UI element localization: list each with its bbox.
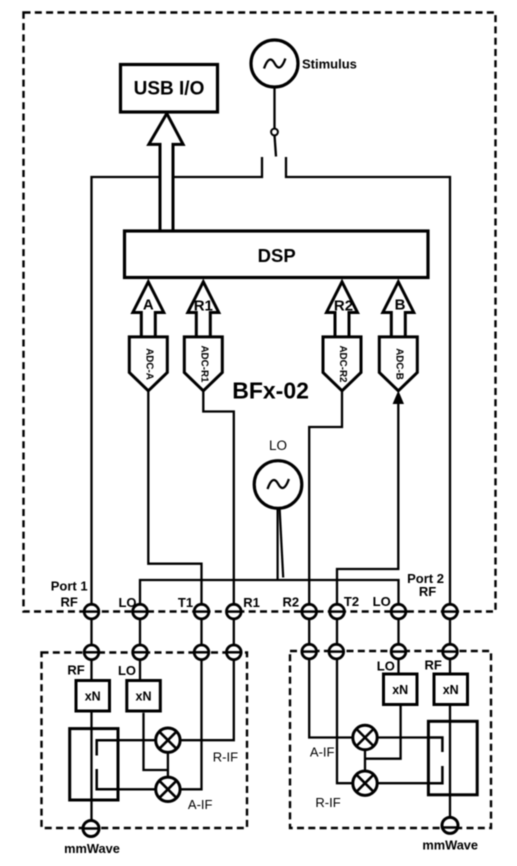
extender RF in connector port2	[443, 644, 458, 659]
mixer A-IF port1	[156, 777, 180, 801]
svg-text:LO: LO	[269, 438, 287, 453]
extender R-IF connector port1	[227, 645, 242, 660]
svg-text:T1: T1	[178, 595, 193, 610]
svg-text:ADC-A: ADC-A	[143, 348, 154, 380]
wire: ADC-A to T1 port to A-IF mixer	[148, 391, 201, 790]
xN multiplier LO port2	[384, 674, 418, 705]
wire: T2 port to ADC-B	[337, 400, 398, 783]
ADC channel A : arrow into DSP	[133, 282, 164, 337]
wire: switch right throw to port2 RF	[286, 157, 450, 818]
R2 connector	[302, 604, 317, 619]
wire: ADC-R2 to R2 port to A-IF mixer right box	[309, 391, 353, 738]
mixer R-IF port1	[156, 728, 180, 752]
right mmWave extender dashed enclosure	[290, 651, 491, 828]
svg-text:R1: R1	[243, 595, 260, 610]
svg-text:BFx-02: BFx-02	[232, 378, 309, 404]
svg-text:RF: RF	[67, 663, 84, 678]
xN multiplier RF port1	[76, 681, 110, 712]
T1 connector	[194, 604, 209, 619]
DSP box	[125, 231, 429, 278]
wire: A-IF mixer to right coupler	[376, 736, 428, 738]
svg-text:A: A	[143, 297, 154, 314]
main instrument dashed enclosure	[24, 13, 496, 612]
USB I/O box	[121, 65, 218, 113]
wire: right LO multiplier to mixers	[365, 705, 401, 759]
svg-text:xN: xN	[443, 683, 459, 697]
port1 RF connector	[84, 604, 99, 619]
extender A-IF connector port1	[194, 645, 209, 660]
wire: stimulus drop to switch	[273, 87, 275, 129]
mixer A-IF port2	[353, 725, 377, 749]
stimulus source	[251, 40, 298, 87]
ADC-R2 pentagon	[323, 337, 361, 391]
svg-text:LO: LO	[373, 594, 391, 609]
svg-text:mmWave: mmWave	[422, 838, 478, 853]
svg-text:xN: xN	[136, 690, 152, 704]
svg-text:USB I/O: USB I/O	[134, 79, 205, 100]
ADC-R1 pentagon	[184, 337, 222, 391]
switch blade	[275, 135, 277, 156]
ADC-A pentagon	[129, 337, 167, 391]
svg-text:RF: RF	[419, 584, 436, 599]
arrowhead into ADC-B	[393, 391, 404, 405]
extender R-IF connector port2	[329, 644, 344, 659]
switch pivot	[271, 129, 278, 136]
svg-text:Port 1: Port 1	[51, 579, 88, 594]
wire: left coupler to R-IF mixer	[118, 739, 157, 741]
svg-text:mmWave: mmWave	[64, 841, 120, 856]
wire: left inter-mixer link	[167, 752, 169, 777]
svg-text:R-IF: R-IF	[315, 795, 340, 810]
xN multiplier RF port2	[434, 674, 468, 705]
svg-text:LO: LO	[118, 663, 136, 678]
extender A-IF connector port2	[302, 644, 317, 659]
svg-text:R-IF: R-IF	[213, 750, 238, 765]
svg-text:Stimulus: Stimulus	[302, 57, 357, 72]
ADC channel R1 : arrow into DSP	[188, 282, 219, 337]
svg-text:A-IF: A-IF	[188, 797, 213, 812]
coupled line (dashed bracket) port 2	[428, 738, 442, 784]
coupler block port 2	[428, 721, 477, 795]
wire: LO distribution bus	[140, 580, 399, 604]
wire: ADC-R1 to R1 port to R-IF mixer	[180, 391, 234, 740]
svg-text:R2: R2	[282, 595, 299, 610]
wire: LO port1 through extender to multiplier	[139, 619, 141, 681]
svg-text:DSP: DSP	[258, 245, 296, 266]
extender RF in connector port1	[84, 645, 99, 660]
svg-text:RF: RF	[61, 595, 78, 610]
ADC channel R2 : arrow into DSP	[327, 282, 358, 337]
wire: R-IF mixer to right coupler	[376, 782, 428, 784]
ADC channel B : arrow into DSP	[383, 282, 414, 337]
coupler block port 1	[70, 729, 118, 800]
svg-text:xN: xN	[392, 683, 408, 697]
svg-text:B: B	[395, 297, 406, 314]
wire: left coupler to A-IF mixer	[118, 788, 157, 790]
svg-text:ADC-R1: ADC-R1	[198, 345, 209, 383]
USB arrow from DSP	[149, 114, 183, 233]
mmWave connector port1	[83, 821, 99, 837]
wire: LO port2 through extender to multiplier	[397, 619, 399, 674]
svg-text:T2: T2	[344, 594, 359, 609]
extender LO in connector port2	[391, 644, 406, 659]
wire: right inter-mixer link	[364, 750, 366, 771]
svg-text:R1: R1	[194, 298, 213, 315]
svg-text:LO: LO	[118, 595, 136, 610]
coupled line (dashed bracket) port 1	[97, 740, 118, 789]
ADC-B pentagon	[379, 337, 417, 391]
svg-text:RF: RF	[425, 658, 442, 673]
wire: switch left throw to port1 RF	[92, 157, 263, 821]
wire: left LO multiplier to mixers	[144, 713, 168, 770]
mmWave connector port2	[442, 817, 458, 833]
svg-text:R2: R2	[334, 298, 353, 315]
svg-text:ADC-B: ADC-B	[393, 348, 404, 380]
port2 LO connector	[391, 604, 406, 619]
svg-text:xN: xN	[85, 690, 101, 704]
R1 connector	[227, 604, 242, 619]
left mmWave extender dashed enclosure	[42, 653, 248, 829]
svg-text:A-IF: A-IF	[310, 745, 335, 760]
svg-text:LO: LO	[377, 659, 395, 674]
svg-text:ADC-R2: ADC-R2	[337, 345, 348, 383]
port1 LO connector	[133, 604, 148, 619]
mixer R-IF port2	[353, 771, 377, 795]
wire: LO source drops	[277, 508, 279, 580]
T2 connector	[330, 604, 345, 619]
xN multiplier LO port1	[127, 681, 161, 712]
extender LO in connector port1	[133, 645, 148, 660]
port2 RF connector	[443, 604, 458, 619]
